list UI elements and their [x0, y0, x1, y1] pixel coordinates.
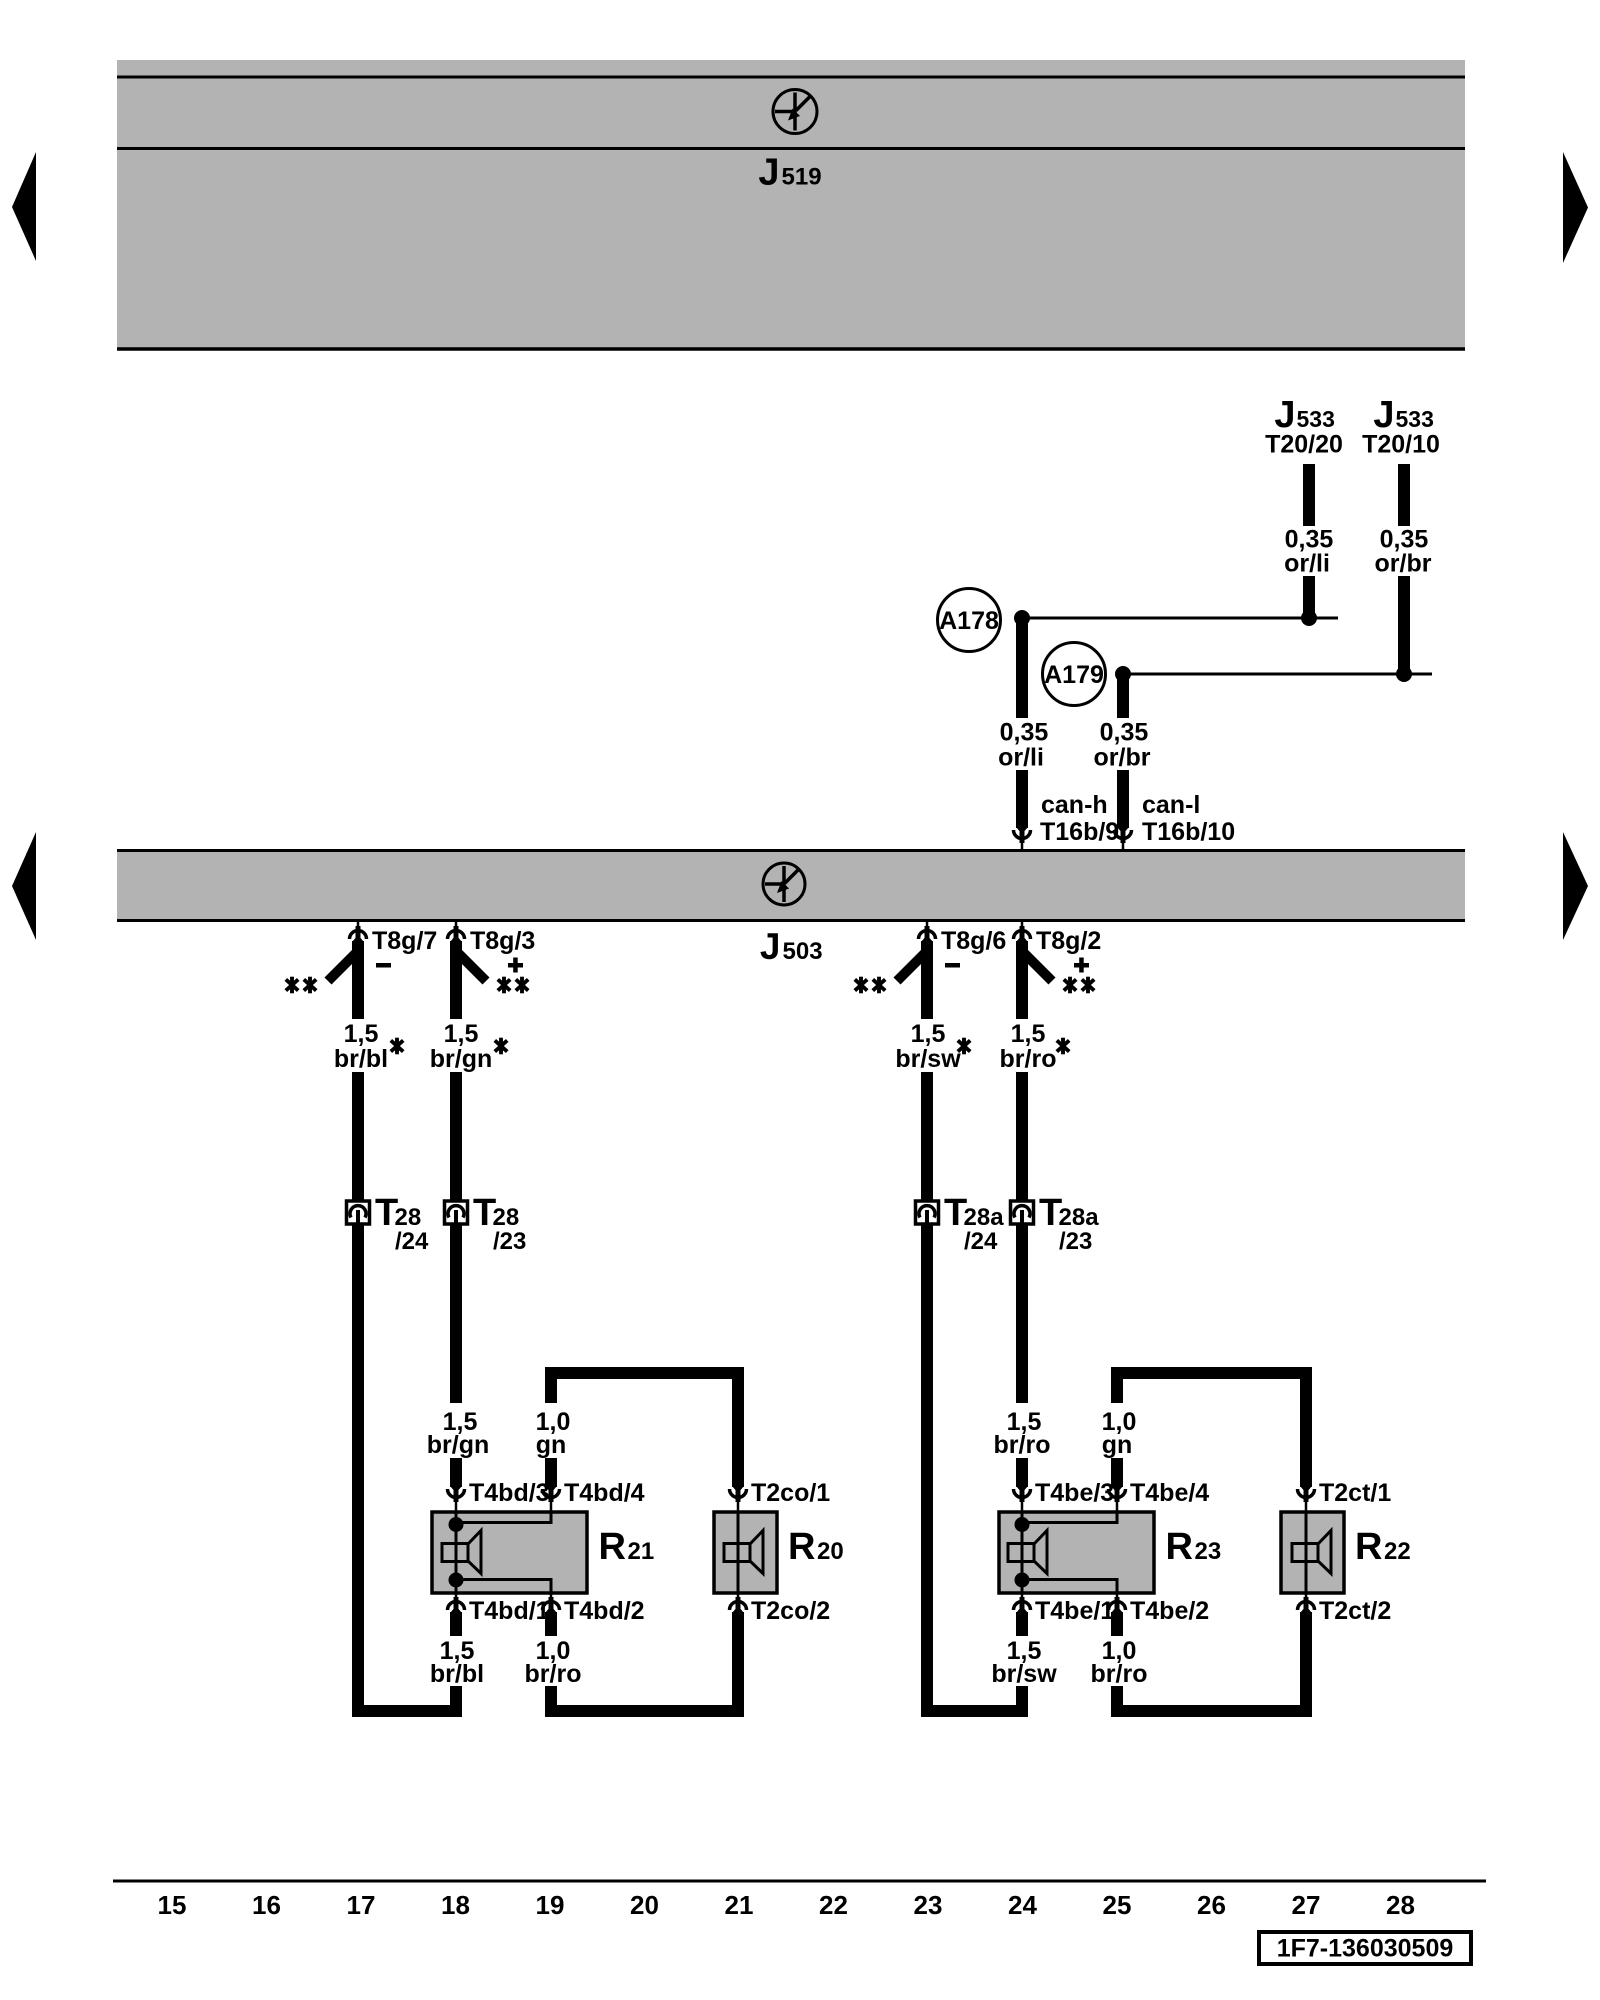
continuation arrow top-left	[12, 152, 36, 261]
svg-text:br/bl: br/bl	[334, 1045, 388, 1073]
twisted-pair marker ** at T8g/2	[1064, 977, 1094, 994]
label T28/24	[375, 1192, 429, 1255]
wire segment below bottom pin x=456	[450, 1612, 462, 1636]
wire label 1,5 br/sw	[895, 1020, 961, 1073]
svg-text:br/gn: br/gn	[430, 1045, 493, 1073]
R21 internal wire	[455, 1512, 458, 1593]
inline connector T28/23	[445, 1201, 468, 1224]
svg-text:533: 533	[1297, 406, 1335, 432]
wire 0,35 or/br can-l down from A179 junction	[1117, 674, 1129, 718]
svg-text:R: R	[788, 1526, 815, 1568]
wire 0,35 or/li from J533 T20/20 (upper segment)	[1303, 464, 1315, 526]
svg-text:T4be/2: T4be/2	[1130, 1597, 1209, 1625]
wire label 1,5 br/bl (below speaker)	[430, 1637, 484, 1688]
pin T16b/10 connector cup into J503	[1115, 827, 1132, 851]
svg-text:T2co/1: T2co/1	[751, 1479, 830, 1507]
pin cup T2ct/2	[1298, 1593, 1315, 1613]
svg-text:can-h: can-h	[1041, 791, 1108, 819]
wire 1,5 br/ro segment below T8g/2	[1016, 941, 1028, 1019]
wire br/ro to T28a/23	[1016, 1072, 1028, 1201]
node symbol A178	[938, 589, 1001, 652]
svg-text:A178: A178	[939, 607, 999, 635]
continuation arrow mid-left	[12, 832, 36, 940]
label J533 (second)	[1373, 394, 1434, 436]
svg-text:28: 28	[395, 1204, 422, 1231]
twisted-pair stub at T8g/2	[1022, 951, 1052, 981]
label R20	[788, 1526, 844, 1568]
polarity - for T8g/6	[945, 963, 960, 968]
svg-text:20: 20	[630, 1890, 659, 1920]
svg-text:1,5: 1,5	[444, 1020, 479, 1048]
R23 junction dot lower	[1015, 1573, 1030, 1588]
pin cup T4be/3	[1014, 1486, 1031, 1512]
wire label 1,0 br/ro (below speaker)	[525, 1637, 582, 1688]
wire br/sw from T28a/24 down and across to T4be/1 (bottom loop)	[927, 1224, 1022, 1711]
svg-text:or/br: or/br	[1375, 550, 1432, 578]
svg-text:T4be/4: T4be/4	[1130, 1479, 1209, 1507]
wire segment below bottom pin x=1117	[1111, 1612, 1123, 1636]
svg-text:/24: /24	[964, 1228, 998, 1255]
internal connection symbol in J519	[773, 90, 817, 134]
svg-text:T2ct/1: T2ct/1	[1319, 1479, 1391, 1507]
twisted-pair marker ** at T8g/6	[855, 977, 885, 994]
svg-text:23: 23	[1195, 1538, 1222, 1565]
wire label 1,5 br/sw (below speaker)	[991, 1637, 1057, 1688]
speaker R21 (bass speaker front left) box	[432, 1512, 587, 1593]
R22 speaker glyph	[1292, 1531, 1331, 1574]
diagram id box 1F7-136030509	[1259, 1932, 1471, 1964]
pin T8g/7 connector cup below J503	[350, 921, 367, 942]
loop wire br/ro: R21 T4bd/2 down over to R20 T2co/2	[551, 1612, 738, 1711]
wire label 1,5 br/gn (above speaker)	[427, 1408, 490, 1459]
R21 internal step from T4bd/2	[456, 1580, 551, 1594]
svg-text:or/br: or/br	[1094, 744, 1151, 772]
wire label 1,0 br/ro (below speaker)	[1091, 1637, 1148, 1688]
svg-text:22: 22	[819, 1890, 848, 1920]
polarity + for T8g/3	[508, 958, 523, 973]
R22 internal wire	[1305, 1512, 1308, 1593]
wire 1,5 br/sw segment below T8g/6	[921, 941, 933, 1019]
pin cup T2ct/1	[1298, 1486, 1315, 1512]
control unit J503 (radio/navigation display unit) band	[117, 851, 1465, 921]
svg-text:R: R	[1355, 1526, 1382, 1568]
control unit J519 (onboard supply control unit) band	[117, 60, 1465, 349]
svg-text:1F7-136030509: 1F7-136030509	[1277, 1935, 1454, 1963]
svg-text:533: 533	[1396, 406, 1434, 432]
svg-text:20: 20	[817, 1538, 844, 1565]
wire segment into top pin x=456	[450, 1458, 462, 1487]
node line A179 (can-l bus)	[1123, 673, 1432, 676]
svg-text:0,35: 0,35	[1100, 719, 1149, 747]
svg-text:br/gn: br/gn	[427, 1431, 490, 1459]
footnote * marker	[1057, 1038, 1069, 1055]
wire segment into top pin x=1117	[1111, 1458, 1123, 1487]
pin cup T4bd/1	[448, 1593, 465, 1613]
svg-text:br/ro: br/ro	[525, 1660, 582, 1688]
twisted-pair marker ** at T8g/7	[286, 977, 316, 994]
svg-text:br/sw: br/sw	[895, 1045, 961, 1073]
wire label 1,5 br/ro	[1000, 1020, 1057, 1073]
label T28a/23	[1039, 1192, 1099, 1255]
svg-text:24: 24	[1008, 1890, 1037, 1920]
R23 internal step from T4be/4	[1022, 1512, 1117, 1523]
R21 internal step from T4bd/4	[456, 1512, 551, 1523]
svg-text:25: 25	[1103, 1890, 1132, 1920]
svg-text:R: R	[599, 1526, 626, 1568]
svg-text:0,35: 0,35	[1000, 719, 1049, 747]
label R21	[599, 1526, 655, 1568]
wire br/bl to T28/24	[352, 1072, 364, 1201]
label R22	[1355, 1526, 1411, 1568]
svg-text:15: 15	[158, 1890, 187, 1920]
pin cup T4bd/4	[543, 1486, 560, 1512]
wire label 1,0 gn (above speaker)	[536, 1408, 571, 1459]
polarity + for T8g/2	[1074, 958, 1089, 973]
svg-text:21: 21	[725, 1890, 754, 1920]
wire br/gn to T28/23	[450, 1072, 462, 1201]
current track scale line	[113, 1880, 1486, 1883]
svg-text:T20/10: T20/10	[1362, 431, 1440, 459]
svg-text:can-l: can-l	[1142, 791, 1200, 819]
node line A178 (can-h bus)	[1022, 617, 1338, 620]
pin T16b/9 connector cup into J503	[1014, 827, 1031, 851]
label J519	[758, 152, 821, 194]
svg-text:br/ro: br/ro	[1091, 1660, 1148, 1688]
svg-text:519: 519	[782, 164, 822, 191]
speaker R20 (treble speaker front left) box	[714, 1512, 777, 1593]
svg-text:16: 16	[252, 1890, 281, 1920]
svg-text:R: R	[1166, 1526, 1193, 1568]
svg-text:19: 19	[536, 1890, 565, 1920]
svg-text:1,5: 1,5	[344, 1020, 379, 1048]
inline connector T28a/23	[1011, 1201, 1034, 1224]
svg-text:gn: gn	[536, 1431, 567, 1459]
svg-text:T16b/10: T16b/10	[1142, 818, 1235, 846]
svg-text:27: 27	[1292, 1890, 1321, 1920]
pin cup T4bd/3	[448, 1486, 465, 1512]
wire segment into top pin x=1022	[1016, 1458, 1028, 1487]
loop wire br/ro: R23 T4be/2 down over to R22 T2ct/2	[1117, 1612, 1306, 1711]
wire label 1,5 br/gn	[430, 1020, 493, 1073]
wire label 1,5 br/ro (above speaker)	[994, 1408, 1051, 1459]
svg-text:or/li: or/li	[1284, 550, 1330, 578]
wire 0,35 or/br from J533 T20/10 (upper segment)	[1398, 464, 1410, 526]
footnote * marker	[391, 1038, 403, 1055]
node symbol A179	[1043, 643, 1106, 706]
twisted-pair marker ** at T8g/3	[498, 977, 528, 994]
pin cup T4be/1	[1014, 1593, 1031, 1613]
polarity - for T8g/7	[376, 963, 391, 968]
svg-text:1,5: 1,5	[1011, 1020, 1046, 1048]
pin T8g/2 connector cup below J503	[1014, 921, 1031, 942]
wire br/sw to T28a/24	[921, 1072, 933, 1201]
svg-text:T20/20: T20/20	[1265, 431, 1343, 459]
wire segment below bottom pin x=551	[545, 1612, 557, 1636]
R21 junction dot upper	[449, 1517, 464, 1532]
continuation arrow top-right	[1563, 152, 1588, 263]
wire 0,35 or/li can-h down from A178 junction	[1016, 618, 1028, 718]
svg-text:br/ro: br/ro	[1000, 1045, 1057, 1073]
svg-text:/24: /24	[395, 1228, 429, 1255]
R23 internal step from T4be/2	[1022, 1580, 1117, 1594]
svg-text:22: 22	[1384, 1538, 1411, 1565]
junction dot at A179 left	[1115, 666, 1131, 682]
wire label 1,5 br/bl	[334, 1020, 388, 1073]
svg-text:26: 26	[1197, 1890, 1226, 1920]
R21 junction dot lower	[449, 1573, 464, 1588]
junction dot at A178 left	[1014, 610, 1030, 626]
label T28a/24	[944, 1192, 1004, 1255]
R21 speaker glyph	[442, 1531, 481, 1574]
svg-text:J: J	[760, 926, 781, 967]
wire 1,5 br/bl segment below T8g/7	[352, 941, 364, 1019]
svg-text:28: 28	[493, 1204, 520, 1231]
svg-text:A179: A179	[1044, 661, 1104, 689]
R20 speaker glyph	[724, 1531, 763, 1574]
svg-text:J: J	[758, 152, 779, 194]
continuation arrow mid-right	[1563, 832, 1588, 940]
wire 0,35 or/li (lower segment to junction)	[1303, 576, 1315, 614]
wire br/gn from T28/23 down to label	[450, 1224, 462, 1403]
svg-text:T8g/7: T8g/7	[372, 927, 437, 955]
internal connection symbol in J503	[763, 863, 805, 905]
wire 1,5 br/gn segment below T8g/3	[450, 941, 462, 1019]
svg-text:T2ct/2: T2ct/2	[1319, 1597, 1391, 1625]
wire segment into top pin x=551	[545, 1458, 557, 1487]
junction dot or/br joins A179	[1396, 666, 1412, 682]
loop wire gn: R21 T4bd/4 up over to R20 T2co/1	[551, 1373, 738, 1487]
footnote * marker	[958, 1038, 970, 1055]
pin cup T2co/2	[730, 1593, 747, 1613]
footnote * marker	[495, 1038, 507, 1055]
pin cup T4be/4	[1109, 1486, 1126, 1512]
svg-text:503: 503	[783, 938, 823, 965]
wire br/ro from T28a/23 down to label	[1016, 1224, 1028, 1403]
pin cup T4bd/2	[543, 1593, 560, 1613]
inline connector T28/24	[347, 1201, 370, 1224]
pin cup T4be/2	[1109, 1593, 1126, 1613]
svg-text:T4bd/1: T4bd/1	[469, 1597, 550, 1625]
svg-text:T8g/6: T8g/6	[941, 927, 1006, 955]
wire label 1,0 gn (above speaker)	[1102, 1408, 1137, 1459]
wire 0,35 or/br (lower segment to junction)	[1398, 576, 1410, 670]
svg-text:br/ro: br/ro	[994, 1431, 1051, 1459]
svg-text:T4be/3: T4be/3	[1035, 1479, 1114, 1507]
svg-text:28a: 28a	[964, 1204, 1005, 1231]
junction dot or/li joins A178	[1301, 610, 1317, 626]
label T28/23	[473, 1192, 526, 1255]
pin cup T2co/1	[730, 1486, 747, 1512]
pin T8g/6 connector cup below J503	[919, 921, 936, 942]
pin T8g/3 connector cup below J503	[448, 921, 465, 942]
svg-text:1,5: 1,5	[911, 1020, 946, 1048]
svg-text:28: 28	[1386, 1890, 1415, 1920]
R23 internal wire	[1021, 1512, 1024, 1593]
speaker R23 (bass speaker front right) box	[999, 1512, 1154, 1593]
svg-text:T8g/3: T8g/3	[470, 927, 535, 955]
loop wire gn: R23 T4be/4 up over to R22 T2ct/1	[1117, 1373, 1306, 1487]
twisted-pair stub at T8g/6	[897, 951, 927, 981]
label J503	[760, 926, 823, 967]
svg-text:T4bd/4: T4bd/4	[564, 1479, 645, 1507]
wire br/bl from T28/24 down and across to T4bd/1 (bottom loop)	[358, 1224, 456, 1711]
inline connector T28a/24	[916, 1201, 939, 1224]
svg-text:gn: gn	[1102, 1431, 1133, 1459]
twisted-pair stub at T8g/7	[328, 951, 358, 981]
twisted-pair stub at T8g/3	[456, 951, 486, 981]
wire can-h lower segment	[1016, 770, 1028, 828]
svg-text:br/sw: br/sw	[991, 1660, 1057, 1688]
svg-text:23: 23	[914, 1890, 943, 1920]
svg-text:T8g/2: T8g/2	[1036, 927, 1101, 955]
svg-text:br/bl: br/bl	[430, 1660, 484, 1688]
svg-text:T4bd/2: T4bd/2	[564, 1597, 645, 1625]
svg-text:17: 17	[347, 1890, 376, 1920]
svg-text:T16b/9: T16b/9	[1040, 818, 1119, 846]
svg-text:/23: /23	[493, 1228, 526, 1255]
R23 speaker glyph	[1008, 1531, 1047, 1574]
wire segment below bottom pin x=1022	[1016, 1612, 1028, 1636]
svg-text:/23: /23	[1059, 1228, 1092, 1255]
speaker R22 (treble speaker front right) box	[1281, 1512, 1344, 1593]
svg-text:T4bd/3: T4bd/3	[469, 1479, 550, 1507]
svg-text:T2co/2: T2co/2	[751, 1597, 830, 1625]
svg-text:T4be/1: T4be/1	[1035, 1597, 1114, 1625]
label R23	[1166, 1526, 1222, 1568]
svg-text:18: 18	[441, 1890, 470, 1920]
svg-text:21: 21	[628, 1538, 655, 1565]
R23 junction dot upper	[1015, 1517, 1030, 1532]
label J533 (first)	[1274, 394, 1335, 436]
svg-text:28a: 28a	[1059, 1204, 1100, 1231]
svg-text:or/li: or/li	[998, 744, 1044, 772]
wire can-l lower segment	[1117, 770, 1129, 828]
R20 internal wire	[737, 1512, 740, 1593]
